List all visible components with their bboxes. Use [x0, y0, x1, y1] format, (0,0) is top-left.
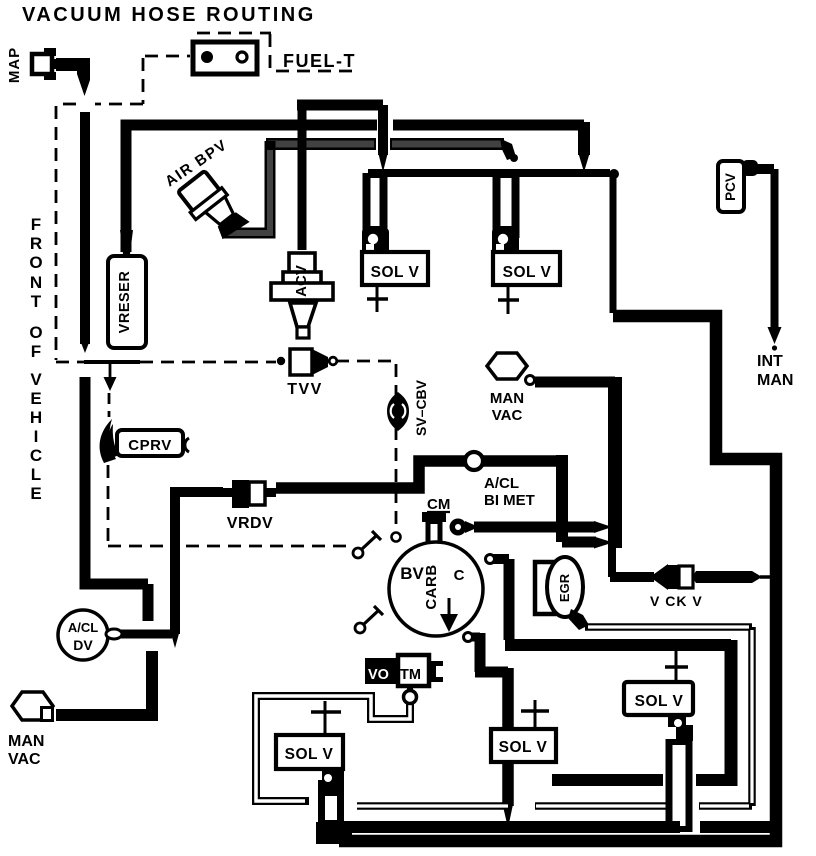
- node junction dot right of header: [609, 169, 619, 179]
- hose PCV to INT MAN: [752, 164, 774, 174]
- hose line B carb to right side: [493, 554, 509, 564]
- svg-text:INT: INT: [757, 353, 783, 370]
- svg-text:VRDV: VRDV: [227, 515, 273, 532]
- hose MAN VAC to CM line: [535, 377, 615, 388]
- hose carb to SOL V5: [472, 633, 480, 642]
- svg-text:SOL V: SOL V: [371, 264, 420, 281]
- CM fitting on carb: [422, 512, 446, 522]
- VRESER box: [108, 256, 146, 348]
- SV-CBV valve: [387, 392, 409, 431]
- svg-text:VAC: VAC: [8, 751, 41, 768]
- AIR BPV valve: [175, 168, 249, 247]
- svg-text:FUEL-T: FUEL-T: [283, 51, 356, 71]
- FRONT OF VEHICLE label: [29, 215, 42, 503]
- SOL V4 box: [276, 735, 343, 769]
- svg-text:R: R: [30, 234, 42, 253]
- EGR connector elbow: [568, 609, 589, 630]
- svg-text:VACUUM HOSE ROUTING: VACUUM HOSE ROUTING: [22, 4, 316, 26]
- svg-text:N: N: [30, 273, 42, 292]
- PCV connector blob: [742, 160, 758, 176]
- hose line2 VRESER to right elbow: [126, 125, 377, 252]
- svg-text:ACV: ACV: [293, 265, 310, 297]
- SOL V5 box: [491, 729, 556, 762]
- svg-text:CARB: CARB: [423, 564, 440, 609]
- hose A/CL elbow down-right: [556, 455, 568, 542]
- VRDV body: [232, 480, 249, 508]
- SOL V1 dagger: [376, 285, 379, 312]
- CPRV leaf: [100, 419, 116, 463]
- svg-text:MAN: MAN: [490, 390, 524, 407]
- svg-text:V: V: [30, 370, 42, 389]
- svg-text:E: E: [30, 389, 41, 408]
- svg-text:VAC: VAC: [492, 407, 523, 424]
- node key symbol upper (carb left): [353, 548, 363, 558]
- svg-text:EGR: EGR: [557, 573, 572, 602]
- svg-text:SOL V: SOL V: [285, 746, 334, 763]
- hose A/CL DV to VRDV line: [121, 630, 172, 639]
- hose C-tube VOTM loop: [256, 696, 410, 801]
- SOL V3 outlet fitting: [668, 714, 686, 727]
- SOL V1 box: [362, 252, 428, 285]
- SOL V4 dagger: [324, 701, 327, 735]
- hose VRDV left: [175, 492, 223, 634]
- svg-text:C: C: [30, 446, 42, 465]
- hose bottom band upper: [340, 821, 777, 833]
- wire dashed TVV horizontal: [56, 361, 276, 364]
- hose VRESER neck: [120, 230, 133, 254]
- hose VCK V feed elbow: [608, 541, 616, 577]
- svg-text:O: O: [29, 323, 42, 342]
- hose thin EGR tube right and down: [585, 623, 752, 631]
- SOL V1 elbow fitting: [362, 228, 389, 254]
- A/CL DV circle: [58, 610, 108, 660]
- wire dashed left vertical (MAP line): [55, 106, 58, 360]
- node key symbol lower (carb left): [355, 623, 365, 633]
- VCK V valve: [650, 564, 668, 590]
- MAP connector: [32, 48, 60, 80]
- SOL V3 box: [624, 682, 693, 715]
- svg-text:H: H: [30, 408, 42, 427]
- svg-text:DV: DV: [73, 637, 93, 653]
- node ring carb top-right: [486, 555, 495, 564]
- hose hatched AIR BPV vertical and bottom elbow: [222, 141, 270, 233]
- wire dashed branch arrow to CPRV: [109, 363, 112, 377]
- svg-text:SOL V: SOL V: [499, 739, 548, 756]
- svg-text:CPRV: CPRV: [128, 437, 171, 454]
- svg-text:BV: BV: [400, 564, 424, 583]
- svg-text:MAP: MAP: [6, 47, 23, 83]
- FUEL-T sensor box: [193, 42, 257, 74]
- SOL V2 dagger: [507, 285, 510, 314]
- carburetor circle: [389, 542, 483, 636]
- svg-text:VRESER: VRESER: [117, 271, 133, 334]
- svg-text:O: O: [29, 253, 42, 272]
- svg-text:F: F: [31, 215, 41, 234]
- EGR valve oval: [547, 557, 583, 617]
- svg-text:MAN: MAN: [8, 733, 44, 750]
- svg-text:C: C: [454, 567, 465, 584]
- wire dashed MAP-to-FUEL-T harness: [56, 56, 190, 104]
- wire dashed TVV to SV-CBV corner: [336, 361, 396, 532]
- SOL V2 elbow fitting: [492, 228, 519, 254]
- ACV valve: [289, 253, 315, 273]
- svg-text:MAN: MAN: [757, 372, 793, 389]
- svg-text:BI MET: BI MET: [484, 492, 535, 509]
- hose hatched elbow tip with dot: [500, 139, 516, 161]
- node ring junction on A/CL line: [465, 452, 483, 470]
- hose CM line to MAN VAC vertical: [465, 521, 479, 533]
- wire dashed FUEL-T box outline: [197, 33, 352, 71]
- svg-text:L: L: [31, 465, 41, 484]
- node junction dot left of TVV: [277, 357, 285, 365]
- svg-text:SV–CBV: SV–CBV: [413, 379, 429, 436]
- svg-text:T: T: [31, 292, 42, 311]
- hose SOL V4 tube down: [318, 792, 344, 828]
- hose hatched AIR BPV line (horizontal top): [222, 139, 518, 234]
- hose MAP elbow: [56, 58, 85, 71]
- wire dashed CPRV to carb key: [108, 545, 166, 548]
- hose line4 solenoid header: [368, 169, 610, 177]
- hose SOL V2 tube: [493, 173, 520, 238]
- svg-text:V CK V: V CK V: [650, 593, 703, 609]
- svg-text:F: F: [31, 342, 41, 361]
- CM ring: [450, 519, 467, 536]
- svg-text:TVV: TVV: [287, 381, 323, 398]
- SOL V4 outlet fitting: [322, 769, 344, 780]
- svg-text:PCV: PCV: [723, 173, 738, 201]
- svg-text:E: E: [30, 484, 41, 503]
- node ring carb bottom-right: [464, 633, 473, 642]
- hose SOL V1 tube: [363, 173, 388, 238]
- TVV valve: [290, 349, 312, 375]
- hose ACV vertical: [298, 108, 307, 250]
- SOL V2 box: [493, 252, 560, 285]
- hose MAP main vertical: [80, 112, 90, 344]
- hose SOL V3 tube down: [666, 739, 693, 832]
- EGR mount bracket: [535, 562, 554, 614]
- SOL V3 dagger: [675, 648, 678, 684]
- hose VRDV right to A/CL BI MET line: [276, 461, 562, 488]
- svg-text:I: I: [34, 427, 39, 446]
- wire right loop from junction: [610, 177, 617, 313]
- SOL V5 dagger: [534, 700, 537, 729]
- PCV box: [718, 161, 744, 212]
- CPRV box: [117, 430, 183, 456]
- svg-text:A/CL: A/CL: [484, 475, 519, 492]
- MAN VAC top hexagon: [487, 353, 527, 379]
- svg-text:SOL V: SOL V: [635, 693, 684, 710]
- svg-text:A/CL: A/CL: [68, 620, 98, 635]
- hose line1 top jog: [297, 100, 383, 111]
- VOTM box: [365, 658, 402, 684]
- hose MAP lower run to MAN VAC: [85, 377, 148, 584]
- node open ring above carb: [392, 533, 401, 542]
- svg-text:TM: TM: [400, 667, 421, 683]
- carb arrow: [448, 598, 451, 616]
- svg-text:VO: VO: [368, 667, 389, 683]
- MAN VAC bottom hexagon: [12, 692, 53, 720]
- svg-text:CM: CM: [427, 496, 450, 513]
- svg-text:SOL V: SOL V: [503, 264, 552, 281]
- node VOTM ring: [404, 691, 417, 704]
